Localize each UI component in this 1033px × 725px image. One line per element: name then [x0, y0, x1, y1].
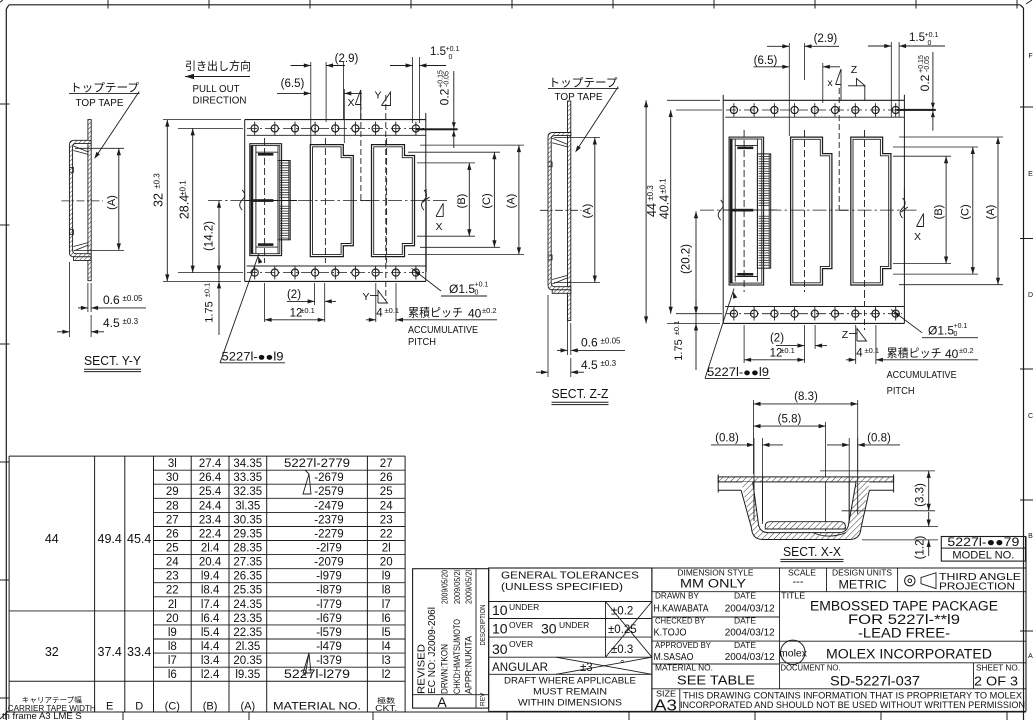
svg-text:-0.05: -0.05 — [924, 56, 931, 72]
svg-text:24: 24 — [380, 500, 393, 512]
svg-text:4: 4 — [376, 308, 383, 320]
svg-text:Y: Y — [362, 291, 369, 303]
svg-text:-l679: -l679 — [316, 613, 342, 625]
svg-text:REV: REV — [480, 692, 487, 706]
center dim 12 +-0.1 bottom — [264, 283, 266, 322]
svg-text:APPROVED BY: APPROVED BY — [655, 641, 712, 650]
svg-text:(UNLESS SPECIFIED): (UNLESS SPECIFIED) — [501, 581, 623, 593]
center tape edge break marks — [240, 190, 245, 210]
svg-text:1.5: 1.5 — [430, 46, 446, 58]
svg-text:l9: l9 — [382, 571, 391, 583]
right pocket 2 centerline — [804, 130, 806, 292]
svg-text:28.35: 28.35 — [233, 543, 262, 555]
svg-text:23: 23 — [166, 571, 179, 583]
frame zone ticks bottom — [122, 712, 124, 720]
svg-text:DESCRIPTION: DESCRIPTION — [478, 605, 487, 646]
svg-text:UNDER: UNDER — [509, 602, 539, 612]
svg-text:X: X — [347, 97, 354, 109]
svg-text:MATERIAL NO.: MATERIAL NO. — [273, 701, 361, 713]
SECT X-X cavity wall lines — [753, 477, 755, 521]
svg-text:Ø1.5: Ø1.5 — [449, 282, 475, 296]
parts table — [9, 455, 405, 457]
svg-text:2l: 2l — [168, 599, 177, 611]
center pocket 3 centerline — [386, 138, 388, 263]
svg-text:0.6: 0.6 — [103, 293, 120, 307]
svg-text:4.5: 4.5 — [581, 358, 598, 372]
SECT Z-Z cover film wedges — [552, 138, 567, 144]
svg-text:2009/05/2l: 2009/05/2l — [464, 570, 473, 604]
svg-text:20: 20 — [380, 557, 393, 569]
SECT X-X flange end ticks — [717, 475, 719, 493]
center dim (14.2) — [218, 201, 220, 273]
right dim (2) bottom — [814, 325, 816, 349]
svg-text:x: x — [827, 77, 833, 89]
svg-text:(14.2): (14.2) — [204, 221, 216, 251]
svg-text:(A): (A) — [985, 205, 997, 220]
svg-text:26: 26 — [380, 472, 393, 484]
svg-text:K.TOJO: K.TOJO — [654, 628, 687, 639]
center pocket 3 (empty) — [372, 145, 415, 257]
svg-text:2l.35: 2l.35 — [235, 641, 260, 653]
right sprocket holes top row — [726, 109, 902, 111]
svg-text:33.35: 33.35 — [233, 472, 262, 484]
svg-text:29: 29 — [166, 486, 179, 498]
SECT Y-Y dim (A) — [75, 147, 124, 149]
svg-text:SECT. Z-Z: SECT. Z-Z — [552, 387, 609, 401]
svg-text:45.4: 45.4 — [127, 532, 151, 546]
right dim 12 +-0.1 bottom — [743, 325, 745, 363]
svg-text:0: 0 — [475, 290, 479, 297]
center pocket 2 centerline — [324, 138, 326, 263]
svg-text:30: 30 — [492, 641, 508, 657]
right section marker X right — [903, 189, 905, 272]
svg-text:l3: l3 — [382, 655, 391, 667]
svg-text:0: 0 — [449, 54, 453, 61]
right tape horizontal centerline — [700, 209, 918, 211]
svg-text:22: 22 — [380, 529, 393, 541]
svg-text:(A): (A) — [240, 701, 255, 713]
svg-text:CHKD:HMATSUMOTO: CHKD:HMATSUMOTO — [452, 619, 462, 694]
frame zone ticks left — [0, 103, 10, 105]
svg-text:l2: l2 — [382, 669, 391, 681]
svg-text:-2679: -2679 — [314, 472, 343, 484]
svg-text:(6.5): (6.5) — [281, 78, 305, 90]
svg-text:±0.1: ±0.1 — [659, 178, 668, 194]
svg-text:累積ピッチ: 累積ピッチ — [408, 306, 463, 320]
svg-text:+0.1: +0.1 — [475, 282, 489, 289]
svg-text:26.35: 26.35 — [233, 571, 262, 583]
svg-text:-l879: -l879 — [316, 585, 342, 597]
svg-text:E: E — [106, 701, 113, 713]
svg-text:SECT. X-X: SECT. X-X — [783, 544, 841, 559]
svg-text:34.35: 34.35 — [233, 458, 262, 470]
svg-text:26: 26 — [166, 529, 179, 541]
svg-text:-LEAD FREE-: -LEAD FREE- — [858, 626, 950, 641]
svg-text:SEE TABLE: SEE TABLE — [677, 673, 755, 688]
SECT Y-Y dim 0.6 +-0.05 — [87, 283, 89, 312]
right pocket 1 connector 52271 outline — [729, 137, 764, 285]
svg-text:2 OF 3: 2 OF 3 — [974, 675, 1018, 689]
svg-text:l3.4: l3.4 — [201, 655, 220, 667]
right dim 44 +-0.3 left — [667, 99, 720, 101]
center dim 32 +-0.3 left — [163, 119, 241, 121]
svg-text:(A): (A) — [506, 194, 518, 209]
svg-text:+0.1: +0.1 — [446, 46, 460, 53]
right pocket 2 (empty) — [791, 137, 832, 285]
svg-text:l7: l7 — [382, 599, 391, 611]
svg-text:l8: l8 — [168, 641, 177, 653]
right leader hole dia 1.5 — [891, 310, 922, 333]
SECT X-X dim (0.8) right — [848, 438, 850, 524]
right pocket 3 (empty) — [851, 137, 891, 285]
svg-text:20: 20 — [166, 613, 179, 625]
svg-text:±0.1: ±0.1 — [203, 283, 212, 298]
svg-text:±0.1: ±0.1 — [780, 346, 795, 355]
svg-text:DATE: DATE — [734, 592, 756, 601]
svg-text:2009/05/2l: 2009/05/2l — [453, 570, 462, 604]
svg-text:E: E — [1028, 171, 1033, 178]
center dim (2) bottom — [314, 283, 316, 305]
center section cut marks — [360, 95, 362, 201]
svg-text:OVER: OVER — [509, 639, 533, 649]
svg-text:2l: 2l — [382, 543, 391, 555]
center pocket 1 polarity bars — [258, 153, 274, 156]
SECT Z-Z emboss pocket profile — [548, 133, 571, 290]
svg-text:SHEET NO.: SHEET NO. — [976, 664, 1020, 673]
svg-text:24: 24 — [166, 557, 179, 569]
svg-text:±0.2: ±0.2 — [959, 346, 974, 355]
svg-text:22.35: 22.35 — [233, 627, 262, 639]
svg-text:49.4: 49.4 — [98, 532, 122, 546]
SECT Z-Z wall ribs — [548, 162, 552, 167]
svg-text:(B): (B) — [203, 701, 218, 713]
svg-text:l9.35: l9.35 — [235, 669, 260, 681]
svg-text:MM ONLY: MM ONLY — [680, 579, 746, 591]
svg-text:(A): (A) — [106, 195, 118, 210]
svg-text:H.KAWABATA: H.KAWABATA — [654, 604, 709, 615]
svg-text:-l579: -l579 — [316, 627, 342, 639]
right tape outline — [723, 99, 904, 101]
center pocket 1 connector 52271 outline — [250, 144, 282, 256]
SECT Y-Y dim 4.5 +-0.3 — [68, 262, 70, 337]
svg-text:l6: l6 — [168, 669, 177, 681]
right dim (C) far right — [893, 146, 978, 148]
svg-text:2004/03/12: 2004/03/12 — [725, 628, 775, 639]
svg-text:5227l-●●l9: 5227l-●●l9 — [707, 367, 769, 379]
right dim 0.2 edge burr — [896, 109, 935, 111]
svg-text:(5.8): (5.8) — [778, 414, 802, 426]
svg-text:28.4: 28.4 — [178, 195, 192, 219]
svg-text:24.4: 24.4 — [199, 500, 222, 512]
svg-text:±0.05: ±0.05 — [601, 337, 622, 346]
svg-text:DIMENSION STYLE: DIMENSION STYLE — [678, 569, 754, 578]
svg-text:1.75: 1.75 — [204, 301, 216, 322]
svg-text:25: 25 — [380, 486, 393, 498]
svg-text:30.35: 30.35 — [233, 514, 262, 526]
svg-text:D: D — [1028, 292, 1033, 299]
svg-text:0: 0 — [954, 331, 958, 338]
svg-text:+0.1: +0.1 — [925, 32, 939, 39]
svg-text:PULL OUT: PULL OUT — [193, 83, 241, 95]
svg-text:27: 27 — [166, 514, 179, 526]
svg-text:APPR:NUKlTA: APPR:NUKlTA — [463, 636, 473, 694]
model number box — [941, 537, 1025, 562]
svg-text:-2379: -2379 — [314, 514, 343, 526]
svg-text:DRWN:TKON: DRWN:TKON — [439, 644, 449, 694]
svg-text:Z: Z — [851, 64, 858, 76]
svg-text:5227l-●●l9: 5227l-●●l9 — [222, 352, 284, 364]
title block dividers — [779, 568, 781, 592]
svg-text:l6: l6 — [382, 613, 391, 625]
svg-text:molex: molex — [779, 648, 808, 660]
molex logo — [781, 640, 805, 664]
svg-text:±0.3: ±0.3 — [123, 317, 139, 326]
svg-text:2004/03/12: 2004/03/12 — [725, 604, 775, 615]
svg-text:REVISED: REVISED — [416, 644, 428, 694]
svg-text:29.35: 29.35 — [233, 529, 262, 541]
svg-text:32: 32 — [152, 193, 166, 207]
svg-text:A: A — [1028, 653, 1033, 660]
SECT Z-Z centerline — [540, 209, 582, 211]
svg-text:3l.35: 3l.35 — [235, 500, 260, 512]
svg-text:±0.3: ±0.3 — [153, 173, 162, 189]
right pocket 1 centerline — [743, 130, 745, 292]
svg-text:WITHIN DIMENSIONS: WITHIN DIMENSIONS — [518, 698, 622, 709]
SECT X-X dim (8.3) — [753, 400, 755, 474]
svg-text:EC NO: J2009-206l: EC NO: J2009-206l — [427, 607, 438, 694]
svg-text:MOLEX INCORPORATED: MOLEX INCORPORATED — [826, 647, 992, 662]
svg-text:(A): (A) — [582, 204, 594, 219]
svg-text:X: X — [435, 221, 442, 233]
svg-text:20.35: 20.35 — [233, 655, 262, 667]
svg-text:Z: Z — [842, 329, 849, 341]
svg-text:l7: l7 — [168, 655, 177, 667]
svg-text:27: 27 — [380, 458, 393, 470]
svg-text:±0.1: ±0.1 — [385, 306, 400, 315]
center dim (2.9) top — [310, 62, 312, 144]
svg-text:MUST REMAIN: MUST REMAIN — [533, 687, 607, 698]
svg-text:0: 0 — [928, 40, 932, 47]
svg-text:±0.1: ±0.1 — [179, 180, 188, 196]
frame bottom line — [6, 711, 1026, 713]
svg-text:THIS DRAWING CONTAINS INFORMAT: THIS DRAWING CONTAINS INFORMATION THAT I… — [683, 691, 1022, 701]
SECT Z-Z dim 4.5 +-0.3 — [547, 295, 549, 377]
center leader hole dia 1.5 — [412, 268, 442, 291]
center pocket 2 (empty) — [310, 145, 353, 257]
center dim 4 +-0.1 and accumulative pitch 40 +-0.2 — [375, 283, 377, 322]
svg-text:l5: l5 — [382, 627, 391, 639]
center pocket 1 centerline — [264, 138, 266, 263]
svg-text:PITCH: PITCH — [887, 385, 915, 397]
center dim (B) right — [417, 162, 475, 164]
SECT Z-Z leader — [577, 87, 619, 151]
svg-text:-2479: -2479 — [314, 500, 343, 512]
svg-text:l2.4: l2.4 — [201, 669, 220, 681]
right pocket 3 centerline — [864, 130, 866, 292]
svg-text:METRIC: METRIC — [839, 580, 887, 592]
svg-text:0.2: 0.2 — [438, 88, 452, 105]
svg-text:X: X — [914, 231, 921, 243]
svg-text:5227l-l279: 5227l-l279 — [284, 669, 350, 681]
svg-text:(0.8): (0.8) — [867, 433, 891, 445]
svg-text:(B): (B) — [933, 205, 945, 220]
svg-text:F: F — [1028, 53, 1032, 60]
svg-text:22: 22 — [166, 585, 179, 597]
svg-text:トップテープ: トップテープ — [549, 77, 619, 90]
svg-text:25.4: 25.4 — [199, 486, 222, 498]
svg-text:GENERAL TOLERANCES: GENERAL TOLERANCES — [501, 570, 639, 582]
SECT X-X dim (3.3) — [820, 470, 935, 472]
svg-text:1.5: 1.5 — [909, 32, 925, 44]
svg-text:40: 40 — [468, 307, 482, 321]
center section marker X right — [425, 189, 427, 272]
svg-text:M.SASAO: M.SASAO — [654, 652, 694, 663]
svg-text:l8.4: l8.4 — [201, 585, 220, 597]
svg-text:2l.4: 2l.4 — [201, 543, 220, 555]
svg-text:5227l-●●79: 5227l-●●79 — [947, 535, 1019, 549]
svg-text:30: 30 — [166, 472, 179, 484]
svg-text:±0.05: ±0.05 — [123, 294, 144, 303]
svg-text:PROJECTION: PROJECTION — [939, 581, 1015, 593]
SECT X-X dim (5.8) — [825, 422, 827, 531]
svg-text:30: 30 — [541, 621, 557, 637]
svg-text:---: --- — [793, 576, 804, 588]
frame zone ticks right — [1020, 106, 1033, 108]
svg-text:l7.4: l7.4 — [201, 599, 220, 611]
frame zone ticks top — [107, 0, 109, 9]
SECT X-X connector seat (hatched) — [765, 522, 845, 529]
svg-text:(B): (B) — [456, 194, 468, 209]
svg-text:A3: A3 — [654, 698, 677, 715]
center sprocket holes top row — [247, 127, 424, 129]
svg-text:DATE: DATE — [734, 617, 756, 626]
third angle projection symbol — [905, 576, 915, 586]
svg-text:(8.3): (8.3) — [794, 391, 818, 403]
svg-text:INCORPORATED AND SHOULD NOT BE: INCORPORATED AND SHOULD NOT BE USED WITH… — [680, 700, 1025, 710]
svg-text:(3.3): (3.3) — [915, 483, 927, 507]
svg-text:0.2: 0.2 — [918, 74, 932, 91]
svg-text:DIRECTION: DIRECTION — [193, 95, 247, 107]
right dim 40.4 +-0.1 — [676, 109, 722, 111]
center dim 1.5 top (hole dia) — [412, 57, 414, 123]
svg-text:B: B — [1028, 533, 1033, 540]
SECT Z-Z pocket bottom lip — [552, 290, 571, 294]
svg-text:(2): (2) — [287, 289, 301, 301]
svg-text:-l779: -l779 — [316, 599, 342, 611]
svg-text:SECT. Y-Y: SECT. Y-Y — [84, 354, 142, 368]
svg-text:D: D — [135, 701, 143, 713]
right dim (A) far right — [899, 136, 1003, 138]
svg-text:26.4: 26.4 — [199, 472, 222, 484]
svg-text:2009/05/20: 2009/05/20 — [440, 570, 449, 604]
right section cut Z dashed line — [838, 88, 840, 210]
svg-text:(6.5): (6.5) — [754, 55, 778, 67]
svg-text:TITLE: TITLE — [781, 592, 805, 601]
center pocket 1 connector contact comb — [278, 161, 290, 240]
svg-text:l4.4: l4.4 — [201, 641, 220, 653]
SECT Z-Z dim (A) — [554, 137, 600, 139]
SECT X-X dim (1.2) — [862, 526, 938, 528]
svg-text:l5.4: l5.4 — [201, 627, 220, 639]
svg-text:DOCUMENT NO.: DOCUMENT NO. — [781, 664, 841, 673]
svg-text:Y: Y — [374, 90, 381, 102]
right tape edge break marks — [718, 200, 723, 220]
svg-text:44: 44 — [45, 532, 59, 546]
svg-text:-l479: -l479 — [316, 641, 342, 653]
SECT Y-Y leader to tape strip — [96, 92, 140, 157]
svg-text:±0.3: ±0.3 — [646, 185, 655, 201]
svg-text:(2.9): (2.9) — [814, 33, 838, 45]
right pocket 1 polarity bars — [737, 147, 753, 150]
svg-text:-l979: -l979 — [316, 571, 342, 583]
general tolerance block — [489, 568, 652, 711]
right sprocket holes bottom row — [726, 313, 902, 315]
svg-text:2004/03/12: 2004/03/12 — [725, 652, 775, 663]
center tape outline — [245, 119, 426, 121]
svg-text:22.4: 22.4 — [199, 529, 222, 541]
svg-text:40.4: 40.4 — [658, 195, 672, 219]
center dim 1.75 +-0.1 — [218, 258, 220, 335]
svg-text:25.35: 25.35 — [233, 585, 262, 597]
svg-text:±0.1: ±0.1 — [865, 346, 880, 355]
svg-text:4: 4 — [856, 348, 863, 360]
svg-text:DESIGN UNITS: DESIGN UNITS — [832, 569, 892, 578]
svg-text:CKT.: CKT. — [375, 704, 397, 713]
svg-text:1.75: 1.75 — [673, 339, 685, 360]
svg-text:23.4: 23.4 — [199, 514, 222, 526]
svg-text:0.6: 0.6 — [581, 336, 598, 350]
SECT Y-Y cover film wedges — [74, 146, 89, 152]
SECT Y-Y carrier tape strip (hatched) — [88, 120, 91, 281]
right dim 1.75 +-0.1 — [695, 300, 697, 370]
svg-text:PITCH: PITCH — [408, 336, 436, 348]
right dim (2.9) top — [788, 43, 790, 136]
svg-text:28: 28 — [166, 500, 179, 512]
svg-text:(2.9): (2.9) — [335, 53, 359, 65]
svg-text:l8: l8 — [382, 585, 391, 597]
svg-text:(0.8): (0.8) — [715, 433, 739, 445]
svg-text:UNDER: UNDER — [559, 620, 589, 630]
svg-text:(C): (C) — [165, 701, 180, 713]
svg-text:23.35: 23.35 — [233, 613, 262, 625]
svg-text:トップテープ: トップテープ — [70, 82, 140, 95]
svg-text:ACCUMULATIVE: ACCUMULATIVE — [887, 369, 957, 381]
svg-text:累積ピッチ: 累積ピッチ — [887, 346, 942, 360]
svg-text:Ø1.5: Ø1.5 — [928, 324, 954, 338]
svg-text:-l379: -l379 — [316, 655, 342, 667]
svg-text:25: 25 — [166, 543, 179, 555]
SECT Z-Z dim 0.6 +-0.05 — [567, 296, 569, 355]
svg-text:(1.2): (1.2) — [915, 536, 927, 560]
sheet border frame — [5, 9, 7, 720]
svg-text:(C): (C) — [481, 193, 493, 208]
svg-text:27.35: 27.35 — [233, 557, 262, 569]
center dim 28.4 +-0.1 — [178, 127, 243, 129]
svg-text:CARRIER TAPE WIDTH: CARRIER TAPE WIDTH — [8, 704, 96, 713]
svg-text:3l: 3l — [168, 458, 177, 470]
svg-text:20.4: 20.4 — [199, 557, 222, 569]
svg-text:OVER: OVER — [509, 620, 533, 630]
svg-text:SD-5227l-037: SD-5227l-037 — [830, 674, 920, 689]
SECT X-X part cross-section (hatched) — [718, 477, 893, 482]
svg-text:l6.4: l6.4 — [201, 613, 220, 625]
svg-text:40: 40 — [945, 347, 959, 361]
svg-text:32: 32 — [45, 645, 59, 659]
center dim 0.2 edge burr — [416, 128, 458, 130]
svg-text:-2279: -2279 — [314, 529, 343, 541]
SECT Y-Y emboss pocket profile — [69, 140, 91, 256]
svg-text:ACCUMULATIVE: ACCUMULATIVE — [408, 324, 478, 336]
